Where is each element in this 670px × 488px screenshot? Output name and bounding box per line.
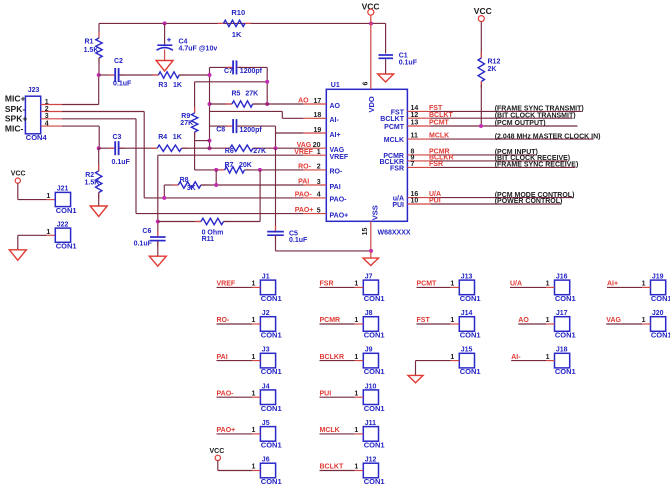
svg-text:CON1: CON1	[364, 294, 385, 303]
svg-text:1: 1	[546, 354, 550, 361]
svg-text:MCLK: MCLK	[384, 137, 404, 144]
svg-text:1: 1	[642, 317, 646, 324]
svg-text:VDO: VDO	[367, 96, 376, 112]
svg-text:1: 1	[251, 281, 255, 288]
svg-text:R2: R2	[85, 172, 94, 179]
svg-text:0.1uF: 0.1uF	[113, 81, 132, 88]
svg-text:1200pf: 1200pf	[240, 68, 263, 75]
svg-text:J6: J6	[262, 457, 270, 464]
svg-text:27K: 27K	[253, 148, 266, 155]
svg-text:CON1: CON1	[261, 404, 282, 413]
svg-text:0.1uF: 0.1uF	[134, 240, 153, 247]
svg-text:AI-: AI-	[511, 354, 521, 361]
svg-text:(PCM OUTPUT): (PCM OUTPUT)	[495, 120, 546, 127]
svg-text:J14: J14	[461, 310, 473, 317]
svg-text:1: 1	[317, 149, 321, 156]
svg-text:PAO-: PAO-	[217, 390, 235, 397]
svg-text:R12: R12	[488, 59, 501, 66]
svg-text:R3: R3	[158, 82, 167, 89]
svg-text:1: 1	[354, 281, 358, 288]
svg-text:CON1: CON1	[555, 367, 576, 376]
svg-text:11: 11	[411, 133, 419, 140]
svg-text:PCMT: PCMT	[417, 281, 438, 288]
svg-text:1: 1	[46, 193, 50, 200]
svg-text:0.1uF: 0.1uF	[289, 237, 308, 244]
svg-text:BCLKR: BCLKR	[320, 354, 345, 361]
svg-text:MIC+: MIC+	[5, 93, 26, 103]
svg-text:1: 1	[450, 354, 454, 361]
svg-text:J1: J1	[262, 274, 270, 281]
svg-text:1: 1	[354, 354, 358, 361]
svg-text:CON1: CON1	[261, 331, 282, 340]
svg-text:MCLK: MCLK	[320, 427, 340, 434]
svg-text:J15: J15	[461, 347, 473, 354]
svg-text:J16: J16	[556, 274, 568, 281]
svg-text:C1: C1	[399, 53, 408, 60]
svg-text:J5: J5	[262, 420, 270, 427]
svg-text:5: 5	[317, 207, 321, 214]
svg-text:CON1: CON1	[56, 242, 77, 251]
svg-text:C7: C7	[224, 68, 233, 75]
svg-text:1: 1	[251, 390, 255, 397]
svg-text:PCMT: PCMT	[429, 120, 450, 127]
svg-text:27K: 27K	[180, 120, 193, 127]
svg-text:BCLKT: BCLKT	[429, 112, 453, 119]
svg-text:1: 1	[354, 317, 358, 324]
svg-text:RO-: RO-	[217, 317, 231, 324]
svg-text:2: 2	[45, 106, 49, 113]
svg-text:19: 19	[314, 127, 322, 134]
svg-text:J22: J22	[57, 221, 69, 228]
svg-text:CON1: CON1	[651, 331, 670, 340]
svg-text:R8: R8	[180, 177, 189, 184]
svg-text:1: 1	[45, 99, 49, 106]
svg-text:3: 3	[45, 113, 49, 120]
svg-text:BCLKT: BCLKT	[320, 464, 344, 471]
svg-text:J12: J12	[365, 457, 377, 464]
svg-text:17: 17	[314, 98, 322, 105]
svg-text:CON1: CON1	[651, 294, 670, 303]
svg-text:J10: J10	[365, 383, 377, 390]
svg-text:18: 18	[314, 112, 322, 119]
svg-text:J23: J23	[28, 87, 40, 94]
svg-text:1: 1	[251, 354, 255, 361]
svg-text:MCLK: MCLK	[429, 133, 449, 140]
svg-text:1K: 1K	[173, 134, 182, 141]
svg-text:R4: R4	[158, 134, 167, 141]
svg-text:FSR: FSR	[390, 165, 404, 172]
svg-text:(POWER CONTROL): (POWER CONTROL)	[495, 198, 563, 205]
svg-text:SPK+: SPK+	[5, 114, 27, 124]
svg-text:RO-: RO-	[330, 169, 344, 176]
svg-text:PAO+: PAO+	[330, 212, 349, 219]
svg-text:1: 1	[450, 281, 454, 288]
svg-text:1K: 1K	[173, 82, 182, 89]
svg-text:(2.048 MHz MASTER CLOCK IN): (2.048 MHz MASTER CLOCK IN)	[495, 133, 601, 140]
svg-text:U1: U1	[331, 82, 340, 89]
svg-text:1: 1	[546, 317, 550, 324]
svg-text:1: 1	[251, 317, 255, 324]
svg-text:CON1: CON1	[364, 441, 385, 450]
svg-text:CON1: CON1	[364, 404, 385, 413]
svg-text:10: 10	[411, 198, 419, 205]
svg-text:PCMT: PCMT	[384, 124, 405, 131]
svg-text:FSR: FSR	[320, 281, 334, 288]
svg-text:12: 12	[411, 112, 419, 119]
svg-text:CON1: CON1	[460, 367, 481, 376]
svg-text:1: 1	[46, 229, 50, 236]
svg-text:1200pf: 1200pf	[240, 127, 263, 134]
svg-text:AI-: AI-	[330, 117, 340, 124]
svg-text:0.1uF: 0.1uF	[399, 60, 418, 67]
svg-text:4: 4	[45, 121, 49, 128]
svg-text:2K: 2K	[488, 66, 497, 73]
svg-text:6: 6	[363, 82, 370, 86]
svg-text:C6: C6	[142, 228, 151, 235]
svg-text:15: 15	[362, 228, 369, 236]
svg-text:(BIT CLOCK TRANSMIT): (BIT CLOCK TRANSMIT)	[495, 112, 576, 119]
svg-text:1K: 1K	[232, 30, 242, 39]
svg-text:CON1: CON1	[460, 294, 481, 303]
svg-text:BCLKT: BCLKT	[380, 116, 404, 123]
svg-text:7: 7	[411, 161, 415, 168]
svg-text:VCC: VCC	[362, 2, 380, 12]
svg-text:FSR: FSR	[429, 161, 443, 168]
svg-text:CON1: CON1	[460, 331, 481, 340]
svg-text:1.5K: 1.5K	[84, 47, 99, 54]
svg-text:1: 1	[251, 427, 255, 434]
svg-text:AO: AO	[330, 103, 341, 110]
svg-text:J21: J21	[57, 186, 69, 193]
svg-text:PCMR: PCMR	[320, 317, 341, 324]
svg-text:0.1uF: 0.1uF	[112, 159, 131, 166]
svg-text:CON1: CON1	[261, 367, 282, 376]
svg-text:J2: J2	[262, 310, 270, 317]
svg-text:PAI: PAI	[330, 184, 341, 191]
svg-text:VCC: VCC	[11, 170, 26, 177]
svg-text:CON1: CON1	[261, 477, 282, 486]
svg-text:AI+: AI+	[607, 281, 618, 288]
svg-text:4.7uF @10v: 4.7uF @10v	[179, 46, 218, 53]
svg-text:1: 1	[642, 281, 646, 288]
svg-text:PUI: PUI	[392, 202, 404, 209]
svg-text:R7: R7	[225, 162, 234, 169]
svg-text:20K: 20K	[239, 162, 252, 169]
svg-text:1: 1	[354, 427, 358, 434]
svg-text:C2: C2	[114, 58, 123, 65]
svg-text:20: 20	[313, 142, 321, 149]
svg-text:CON4: CON4	[26, 133, 48, 142]
svg-text:C4: C4	[179, 39, 188, 46]
svg-text:J7: J7	[365, 274, 373, 281]
svg-text:MIC-: MIC-	[5, 124, 24, 134]
svg-text:1.5K: 1.5K	[85, 180, 100, 187]
svg-text:PAO-: PAO-	[330, 197, 348, 204]
svg-text:1: 1	[354, 390, 358, 397]
svg-text:27K: 27K	[245, 91, 258, 98]
svg-text:R10: R10	[231, 8, 245, 17]
svg-text:2: 2	[317, 164, 321, 171]
svg-text:J13: J13	[461, 274, 473, 281]
svg-text:13: 13	[411, 120, 419, 127]
svg-text:VREF: VREF	[330, 154, 349, 161]
svg-text:J19: J19	[652, 274, 664, 281]
svg-text:W68XXXX: W68XXXX	[378, 229, 411, 236]
svg-text:SPK-: SPK-	[5, 104, 25, 114]
svg-text:PAO+: PAO+	[217, 427, 236, 434]
svg-text:CON1: CON1	[555, 294, 576, 303]
svg-text:C8: C8	[216, 127, 225, 134]
svg-text:VSS: VSS	[371, 205, 380, 220]
svg-text:CON1: CON1	[364, 331, 385, 340]
svg-text:R1: R1	[85, 39, 94, 46]
svg-text:PUI: PUI	[429, 198, 441, 205]
svg-text:1: 1	[251, 464, 255, 471]
svg-text:J17: J17	[556, 310, 568, 317]
svg-text:(FRAME SYNC RECEIVE): (FRAME SYNC RECEIVE)	[495, 162, 579, 169]
svg-text:1: 1	[450, 317, 454, 324]
svg-text:J4: J4	[262, 383, 270, 390]
svg-text:CON1: CON1	[261, 441, 282, 450]
svg-text:3: 3	[317, 179, 321, 186]
svg-text:R5: R5	[232, 91, 241, 98]
svg-text:PAI: PAI	[217, 354, 228, 361]
svg-text:1: 1	[546, 281, 550, 288]
svg-text:J11: J11	[365, 420, 376, 427]
svg-text:U/A: U/A	[510, 281, 522, 288]
svg-text:J18: J18	[556, 347, 568, 354]
svg-text:CON1: CON1	[56, 206, 77, 215]
svg-text:VCC: VCC	[210, 448, 225, 455]
svg-text:R6: R6	[225, 148, 234, 155]
svg-text:CON1: CON1	[364, 477, 385, 486]
svg-text:J8: J8	[365, 310, 373, 317]
svg-text:VAG: VAG	[330, 147, 345, 154]
svg-text:1: 1	[354, 464, 358, 471]
svg-text:J9: J9	[365, 347, 373, 354]
svg-text:CON1: CON1	[555, 331, 576, 340]
svg-text:4: 4	[317, 192, 321, 199]
svg-text:R11: R11	[202, 236, 215, 243]
svg-text:J3: J3	[262, 347, 270, 354]
svg-text:CON1: CON1	[261, 294, 282, 303]
svg-text:CON1: CON1	[364, 367, 385, 376]
svg-text:VREF: VREF	[217, 281, 236, 288]
svg-text:J20: J20	[652, 310, 664, 317]
svg-text:VCC: VCC	[474, 6, 492, 16]
svg-text:C3: C3	[113, 134, 122, 141]
svg-text:FST: FST	[417, 317, 431, 324]
svg-text:AI+: AI+	[330, 132, 341, 139]
svg-text:AO: AO	[518, 317, 529, 324]
svg-text:VAG: VAG	[606, 317, 621, 324]
svg-text:PUI: PUI	[320, 390, 332, 397]
svg-text:3K: 3K	[187, 185, 196, 192]
